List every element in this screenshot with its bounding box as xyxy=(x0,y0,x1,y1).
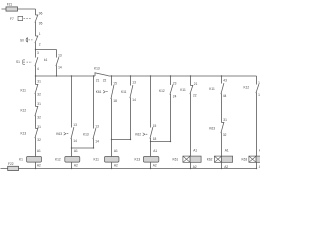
svg-text:K12: K12 xyxy=(244,85,250,89)
svg-text:F21: F21 xyxy=(7,3,13,7)
svg-text:18: 18 xyxy=(153,137,157,141)
svg-text:14: 14 xyxy=(258,93,260,97)
svg-text:S1: S1 xyxy=(16,60,20,64)
svg-text:A1: A1 xyxy=(37,149,41,153)
svg-text:S0: S0 xyxy=(20,39,24,43)
svg-text:A2: A2 xyxy=(114,163,118,167)
svg-text:K11: K11 xyxy=(94,158,100,162)
svg-text:3: 3 xyxy=(37,51,39,55)
svg-text:K63: K63 xyxy=(56,132,62,136)
svg-text:K13: K13 xyxy=(135,158,141,162)
svg-text:32: 32 xyxy=(37,138,41,142)
svg-text:23: 23 xyxy=(173,82,177,86)
svg-text:31: 31 xyxy=(37,102,41,106)
svg-text:F7: F7 xyxy=(10,17,14,21)
svg-text:15: 15 xyxy=(153,124,157,128)
svg-text:22: 22 xyxy=(103,79,107,83)
svg-text:14: 14 xyxy=(95,139,99,143)
svg-text:k1: k1 xyxy=(44,58,48,62)
svg-text:K11: K11 xyxy=(180,88,186,92)
svg-text:K12: K12 xyxy=(21,109,27,113)
svg-text:A2: A2 xyxy=(259,165,260,169)
svg-text:1: 1 xyxy=(39,32,41,36)
svg-text:21: 21 xyxy=(96,79,100,83)
svg-text:K11: K11 xyxy=(209,87,215,91)
svg-text:22: 22 xyxy=(193,94,197,98)
svg-text:K1: K1 xyxy=(19,158,23,162)
svg-text:18: 18 xyxy=(113,99,117,103)
svg-text:4: 4 xyxy=(37,67,39,71)
svg-text:K13: K13 xyxy=(94,67,100,71)
svg-text:A2: A2 xyxy=(74,163,78,167)
svg-text:14: 14 xyxy=(73,139,77,143)
svg-text:32: 32 xyxy=(223,133,227,137)
svg-text:31: 31 xyxy=(223,118,227,122)
svg-text:K62: K62 xyxy=(135,132,141,136)
svg-text:K62: K62 xyxy=(207,158,213,162)
svg-text:A1: A1 xyxy=(193,148,197,152)
svg-text:13: 13 xyxy=(258,81,260,85)
svg-text:21: 21 xyxy=(194,82,198,86)
svg-text:15: 15 xyxy=(113,82,117,86)
svg-text:95: 95 xyxy=(39,22,43,26)
svg-text:K12: K12 xyxy=(159,89,165,93)
svg-text:K13: K13 xyxy=(83,133,89,137)
svg-text:44: 44 xyxy=(223,94,227,98)
svg-text:13: 13 xyxy=(73,123,77,127)
svg-text:A2: A2 xyxy=(153,163,157,167)
svg-text:32: 32 xyxy=(37,93,41,97)
svg-text:32: 32 xyxy=(37,115,41,119)
svg-text:43: 43 xyxy=(223,79,227,83)
svg-text:31: 31 xyxy=(37,80,41,84)
svg-text:A1: A1 xyxy=(114,149,118,153)
svg-text:14: 14 xyxy=(58,66,62,70)
svg-text:24: 24 xyxy=(173,95,177,99)
svg-text:K63: K63 xyxy=(242,158,248,162)
svg-text:F22: F22 xyxy=(8,162,14,166)
svg-text:14: 14 xyxy=(132,98,136,102)
svg-text:A2: A2 xyxy=(37,163,41,167)
svg-text:A1: A1 xyxy=(259,148,260,152)
svg-text:13: 13 xyxy=(132,80,136,84)
svg-text:K63: K63 xyxy=(209,126,215,130)
svg-text:A1: A1 xyxy=(74,149,78,153)
svg-text:13: 13 xyxy=(58,53,62,57)
svg-text:A1: A1 xyxy=(153,149,157,153)
svg-text:K11: K11 xyxy=(121,90,127,94)
svg-text:K11: K11 xyxy=(21,88,27,92)
svg-text:A1: A1 xyxy=(225,148,229,152)
svg-text:K61: K61 xyxy=(173,158,179,162)
svg-text:2: 2 xyxy=(39,43,41,47)
svg-text:K13: K13 xyxy=(21,132,27,136)
svg-text:31: 31 xyxy=(37,125,41,129)
svg-text:96: 96 xyxy=(39,11,43,15)
svg-text:13: 13 xyxy=(95,125,99,129)
svg-text:K12: K12 xyxy=(55,158,61,162)
svg-text:K61: K61 xyxy=(96,90,102,94)
